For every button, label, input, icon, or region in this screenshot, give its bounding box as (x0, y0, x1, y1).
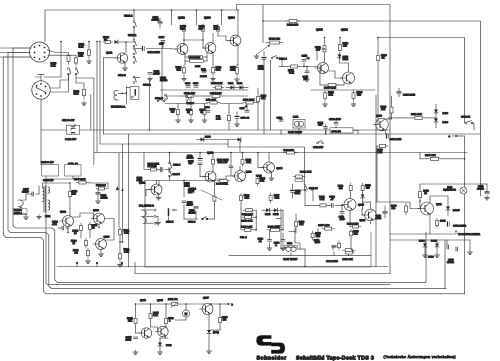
svg-text:10/1b: 10/1b (184, 184, 190, 187)
svg-text:810: 810 (357, 94, 362, 97)
svg-text:1R: 1R (104, 39, 107, 42)
svg-text:22/1b: 22/1b (258, 68, 265, 71)
svg-text:b: b (232, 304, 234, 307)
switch S101-1 second section (133, 48, 135, 50)
resistor R326 10K (391, 104, 393, 107)
wire C123 net (335, 118, 337, 122)
resistor R120 15K (257, 94, 259, 97)
wire osc net top (38, 186, 40, 194)
resistor R16 row tail (206, 103, 208, 104)
resistor R219 4.7K (240, 193, 242, 196)
ground erase head (25, 215, 27, 217)
wire to Q105 base (300, 66, 317, 68)
svg-text:R3b7 80K: R3b7 80K (425, 154, 436, 157)
wire mid bus 1 (80, 129, 390, 131)
trimmer box C219 (42, 165, 59, 177)
wire C208 top (230, 153, 232, 167)
svg-text:1K 10/1b: 1K 10/1b (148, 165, 158, 168)
resistor R128 810 (353, 90, 355, 93)
wire switch to C102 (135, 48, 143, 50)
svg-text:C220 10/1b: C220 10/1b (326, 260, 339, 263)
wire Q103 emitter (212, 53, 214, 66)
diode D106 on bus 3 (238, 138, 241, 142)
resistor R367 80K (427, 158, 430, 160)
resistor R106 90 (190, 107, 192, 110)
contact circle head-R (173, 209, 175, 211)
capacitor black bar head-R (168, 209, 170, 216)
svg-text:4.7K: 4.7K (216, 69, 221, 72)
capacitor C350 22/16 (386, 134, 388, 138)
wire Q103 collector (212, 34, 214, 44)
resistor R361 1.5K (119, 227, 121, 230)
wire x426 vertical (425, 232, 427, 282)
svg-text:RPB 100K: RPB 100K (243, 98, 255, 101)
resistor R101 5.1K (88, 42, 90, 48)
wire bus y=37 right side to S101-12 (378, 38, 465, 123)
wire C319 (398, 88, 400, 92)
capacitor C221 22/16 (291, 190, 295, 192)
diode D309 (158, 343, 162, 346)
switch S101-7 second (186, 95, 188, 97)
diode D307 (423, 244, 427, 247)
wire RP27 (319, 67, 321, 86)
svg-text:D309: D309 (166, 344, 172, 347)
wire head net (156, 216, 158, 220)
ground C116 (306, 77, 308, 79)
svg-text:300K: 300K (195, 65, 201, 68)
wire left vertical x145 (144, 181, 146, 268)
svg-text:(Technische Änderungen vorbeha: (Technische Änderungen vorbehalten) (384, 355, 457, 359)
svg-text:R371 1R: R371 1R (168, 298, 178, 301)
transformer L301 right winding lower (48, 200, 50, 210)
svg-text:4.7K: 4.7K (230, 69, 235, 72)
capacitor C104 100/16 (158, 21, 162, 23)
svg-text:100/16: 100/16 (200, 75, 207, 78)
svg-text:R351 18K: R351 18K (411, 113, 422, 116)
transistor Q104 (230, 35, 241, 46)
trimmer box C119/C120 (66, 125, 79, 134)
resistor R100 4.7K (68, 53, 70, 56)
wire Q106 collector net (340, 63, 349, 72)
transistor Q205 (344, 199, 356, 211)
svg-text:S101-5: S101-5 (118, 74, 126, 77)
transistor Q203 (235, 171, 246, 182)
transistor Q102 (177, 44, 188, 55)
resistor RP27 1.9M (325, 84, 328, 86)
node R101 (88, 41, 90, 43)
svg-text:(D3?): (D3?) (213, 331, 219, 334)
wire L201 net (281, 248, 286, 250)
svg-text:C207 1080P: C207 1080P (283, 258, 298, 261)
wire bottom bus 0 with terminals (57, 266, 388, 268)
wire head feed (135, 77, 140, 79)
wire diode D1305 (447, 196, 449, 207)
svg-text:D201: D201 (265, 213, 271, 216)
svg-text:Q105: Q105 (316, 29, 323, 32)
svg-text:5.1K: 5.1K (74, 93, 79, 96)
svg-text:20K: 20K (190, 190, 195, 193)
svg-text:Q307: Q307 (203, 297, 210, 300)
capacitor C206 100/16 (194, 206, 198, 208)
wire Q205/Q206 outputs (349, 211, 351, 227)
transistor Q310 (376, 118, 389, 131)
svg-text:Q205: Q205 (358, 203, 365, 206)
svg-text:C111: C111 (201, 68, 207, 71)
wire D309 (159, 338, 161, 343)
transistor Q306 (141, 328, 151, 338)
svg-text:Q302: Q302 (60, 211, 67, 214)
wire R353 top (419, 184, 421, 188)
capacitor C362 .022 (61, 226, 63, 230)
resistor R220 15K (295, 219, 297, 222)
ground under Q304 (100, 252, 102, 254)
resistor R201 5.1K (83, 86, 85, 89)
svg-text:S101-12: S101-12 (461, 116, 471, 119)
wire left drop (135, 304, 137, 316)
wire nested bus chain C (3, 57, 464, 294)
wire Q201 collector net (158, 181, 160, 187)
transistor Q106 (343, 72, 355, 84)
node junction (125, 41, 127, 43)
svg-text:RP08 47K: RP08 47K (184, 92, 195, 95)
resistor R353 12 (419, 188, 421, 191)
wire collector stubs from rail (171, 10, 173, 25)
wire Q202 bias (199, 153, 201, 159)
ground R125 (324, 102, 326, 104)
wire mid bus 2 (104, 133, 481, 135)
svg-text:C119 3-40P: C119 3-40P (62, 119, 75, 122)
svg-text:15K: 15K (261, 97, 266, 100)
potentiometer R236 18K (343, 249, 346, 251)
wire R231 diode (362, 193, 364, 195)
resistor RP02 1R (103, 41, 105, 43)
svg-text:C105: C105 (159, 36, 165, 39)
resistor R223 6.7K (318, 204, 320, 206)
wire C220 top (332, 246, 334, 250)
svg-text:100/b: 100/b (343, 58, 349, 61)
resistor R200 4.7K (75, 55, 77, 58)
wire block left vertical (161, 44, 163, 101)
resistor R362 8.2 (96, 188, 98, 190)
wire rows to bus (177, 104, 179, 108)
diode D103 (240, 86, 243, 90)
capacitor C265 47 (331, 203, 333, 207)
wire long vertical x61 (60, 42, 62, 78)
wire R202 row (144, 153, 149, 170)
switch S101-4 (271, 57, 273, 59)
resistor R227 1.6M (322, 228, 325, 230)
transistor Q202 (205, 171, 216, 182)
resistor R222 350 (284, 152, 287, 154)
trimmer box C319 (65, 165, 82, 177)
transistor Q304 (96, 239, 107, 250)
pot wiper arrow (257, 45, 270, 54)
wire C115 stub (303, 63, 305, 67)
capacitor C105 4.7P (161, 40, 165, 42)
wire R223 row (305, 204, 318, 206)
svg-text:Q201: Q201 (139, 182, 146, 185)
wire box link (126, 87, 130, 89)
resistor R223 4.7K (242, 157, 244, 159)
svg-text:b.8K: b.8K (216, 117, 221, 120)
trim cap C219 (45, 168, 49, 170)
wire Q102 collector up (183, 34, 185, 41)
switch S101-8 (169, 162, 171, 164)
svg-text:22K: 22K (128, 319, 133, 322)
svg-text:L101: L101 (293, 116, 299, 119)
svg-text:.027: .027 (318, 124, 323, 127)
wire diode rail (390, 239, 470, 241)
wire Q305 emitter (165, 337, 167, 339)
wire motor lead (185, 304, 187, 310)
resistor RP08 47K (183, 95, 186, 97)
resistor RPB 100K (243, 102, 246, 104)
svg-text:27P: 27P (304, 78, 309, 81)
svg-text:S101-7: S101-7 (173, 173, 181, 176)
wire C10B down to Q103 base (202, 34, 204, 41)
svg-text:Q106: Q106 (341, 29, 348, 32)
svg-text:4.7P: 4.7P (159, 43, 164, 46)
wire C116 (306, 67, 308, 72)
switch S101-7b (169, 171, 171, 173)
wire Q206 collector up (370, 202, 372, 209)
wire diode row (262, 209, 266, 211)
connector DIN socket 1 outline (30, 42, 50, 62)
wire DIN1 to resistor network (47, 50, 68, 53)
wire C223 net (317, 229, 319, 236)
svg-text:D202: D202 (273, 213, 279, 216)
diode D308 (435, 244, 439, 247)
wire R13 to Q104 (217, 34, 219, 37)
resistor R224 12K (312, 231, 314, 233)
connector box head-L (130, 87, 139, 100)
DIN socket 2 chassis arrow (35, 77, 41, 81)
wire junction up to Q101 collector (125, 42, 127, 52)
capacitor C203 1000P (182, 200, 186, 202)
potentiometer RP20 100K (217, 180, 220, 182)
svg-text:Q101: Q101 (106, 52, 113, 55)
svg-text:100/1b: 100/1b (160, 79, 168, 82)
capacitor C111 100/16 (202, 70, 206, 72)
wire R361 segment (119, 238, 121, 252)
diode D203 (434, 119, 438, 122)
svg-text:RP27 1.9M: RP27 1.9M (324, 87, 336, 90)
diode D310 (207, 330, 211, 333)
capacitor C358 22/16 (383, 211, 387, 213)
wire DIN1 pin leads to left edge (0, 47, 31, 49)
wire R238 to R220 (289, 231, 295, 233)
svg-text:R 221 50K: R 221 50K (300, 171, 312, 174)
capacitor C10B 4.7P (202, 24, 204, 26)
resistor R362b 1.5K (119, 251, 121, 254)
wire supply bus y=21 with corner down right side (263, 21, 481, 196)
diode D102 (231, 86, 234, 90)
transformer L301 left winding (43, 188, 45, 202)
svg-text:150: 150 (343, 45, 348, 48)
svg-text:22/1b: 22/1b (126, 338, 132, 341)
wire nested bus chain A (13, 48, 426, 282)
terminal stubs on bus0 (76, 263, 78, 267)
wire Q105 to Q106 (329, 71, 343, 78)
svg-text:Schneider: Schneider (257, 355, 288, 361)
ground Q201 emitter (158, 196, 160, 198)
svg-text:S101-3: S101-3 (155, 97, 163, 100)
svg-text:~5: ~5 (307, 57, 310, 60)
svg-text:C3B0: C3B0 (428, 256, 434, 259)
wire rail y147 (228, 147, 305, 190)
wire D101 to switch (118, 41, 134, 43)
svg-text:1500P: 1500P (22, 190, 29, 193)
wire Q310 emitter (385, 130, 387, 134)
svg-text:4.7K: 4.7K (244, 197, 249, 200)
svg-text:1000P: 1000P (187, 203, 194, 206)
resistor R126 150 (339, 42, 341, 45)
wire motor limiter rail (429, 214, 431, 235)
svg-text:Schaltbild Tape-Deck TDS 3: Schaltbild Tape-Deck TDS 3 (296, 355, 374, 361)
svg-text:R25B 100K: R25B 100K (268, 225, 280, 228)
ground R117 (236, 77, 238, 79)
switch S101-9 (202, 218, 204, 220)
wire S101-4 column down (270, 60, 272, 130)
switch S101-10 (304, 185, 306, 187)
transformer L301 right winding upper (48, 187, 50, 193)
resistor R203 8.2K (212, 157, 214, 159)
svg-text:R357 2.2K: R357 2.2K (74, 178, 86, 181)
coil L101 (293, 120, 305, 129)
DIN socket 1 pins (34, 46, 36, 48)
logo Schneider mark lower C (271, 343, 285, 354)
resistor R357 2.2K (76, 182, 79, 184)
resistor R105 3.3 (177, 107, 179, 110)
coil L201 (286, 246, 291, 251)
wire column x149 to bus1 (148, 80, 150, 130)
wire rail y152.5 (94, 152, 467, 154)
svg-text:S101-b: S101-b (143, 84, 151, 87)
wire erase head (23, 194, 26, 200)
resistor R160 1K (377, 53, 379, 56)
svg-text:C123 470P: C123 470P (329, 118, 341, 121)
capacitor C103 1000P (148, 72, 152, 74)
svg-text:Q304: Q304 (104, 236, 111, 239)
svg-text:4.7K: 4.7K (78, 54, 83, 57)
svg-text:Q103: Q103 (204, 17, 211, 20)
wire Q201 leads (156, 181, 158, 185)
svg-text:4.7K: 4.7K (246, 161, 251, 164)
svg-text:Q305: Q305 (157, 299, 164, 302)
svg-text:18K: 18K (72, 192, 77, 195)
wire x376 block edge (375, 95, 377, 267)
svg-text:Q104: Q104 (228, 17, 235, 20)
potentiometer R221 50K (293, 176, 296, 178)
switch S101-3 (157, 100, 159, 102)
svg-text:C 120 15P: C 120 15P (65, 138, 77, 141)
capacitor C223 1500 (316, 235, 320, 237)
svg-text:Q203: Q203 (246, 171, 253, 174)
wire rail y255.7 (229, 255, 371, 257)
transformer L301 core (43, 186, 45, 212)
resistor R212 2.2K (242, 216, 245, 218)
wire to R123 (279, 66, 288, 68)
svg-text:D103: D103 (443, 112, 449, 115)
wire row y96 (165, 95, 183, 97)
wire C121 column down (263, 61, 265, 134)
svg-text:47P: 47P (189, 162, 194, 165)
wire C203 net (183, 181, 185, 198)
svg-text:1.2K: 1.2K (153, 314, 158, 317)
svg-text:C350 22/1b: C350 22/1b (390, 138, 403, 141)
resistor R218 3.3K (242, 229, 245, 231)
svg-text:Q311: Q311 (436, 203, 442, 206)
ground C214 (282, 246, 284, 248)
svg-text:RP2b 100K: RP2b 100K (216, 183, 228, 186)
resistor R354 1.5M (377, 145, 379, 147)
svg-text:Q20b: Q20b (360, 219, 367, 222)
ground C388 (135, 350, 137, 352)
resistor R351 18K (412, 117, 415, 119)
wire emitter row y90 (311, 89, 375, 91)
capacitor C352 220/16 (447, 222, 449, 226)
wire EQ nets (295, 214, 297, 219)
wire C367 (26, 193, 32, 195)
svg-text:15K: 15K (299, 223, 304, 226)
wire lamp (463, 183, 481, 185)
capacitor C216 277P (340, 211, 344, 213)
svg-text:C110 .01: C110 .01 (241, 117, 250, 120)
svg-text:HEAD-L: HEAD-L (14, 212, 23, 215)
tape head R/P HEAD-R (143, 210, 146, 216)
resistor R225 12K (350, 229, 352, 231)
trim cap C219b (52, 168, 56, 170)
switch S101-5 lower (133, 56, 135, 58)
transistor Q204 (264, 162, 275, 173)
switch S101-7 contacts (165, 94, 167, 96)
wire C104 stub (159, 18, 161, 22)
svg-text:R322 350: R322 350 (284, 149, 295, 152)
svg-text:R P, HEAD-R: R P, HEAD-R (139, 205, 154, 208)
svg-text:1.5K: 1.5K (124, 231, 129, 234)
capacitor C121 22/16 (262, 57, 266, 59)
svg-text:12K: 12K (354, 232, 359, 235)
svg-text:ERASE: ERASE (14, 209, 22, 212)
wire x445 vertical (444, 240, 446, 288)
wire feed to verticals (76, 77, 94, 79)
capacitor C116 .1 (245, 110, 249, 112)
connector DIN socket 2 outline (32, 81, 50, 99)
wire mid bus 3 diode segment (197, 139, 241, 141)
svg-text:Q204: Q204 (277, 167, 284, 170)
wire L201 to rail (290, 253, 292, 256)
wire Q305 net (150, 321, 152, 327)
svg-text:Q30b: Q30b (140, 299, 147, 302)
resistor R235 18K (338, 241, 340, 243)
diode D112 (338, 55, 342, 58)
resistor R358 10 (89, 222, 91, 225)
svg-text:S101-1: S101-1 (128, 34, 137, 37)
svg-text:C219 3-40P: C219 3-40P (41, 161, 54, 164)
wire vertical from bus to pot (262, 5, 264, 43)
ground R106 (190, 118, 192, 120)
wire motor rail (137, 303, 169, 305)
svg-text:A: A (117, 188, 119, 191)
wire Q204 net (268, 153, 270, 163)
svg-text:RP04 100K: RP04 100K (189, 56, 200, 59)
capacitor C205 (160, 168, 162, 172)
wire R373 (219, 304, 221, 315)
wire osc couplings (69, 183, 71, 189)
svg-text:R322 160: R322 160 (287, 24, 299, 27)
wire Q303 out to erase bus (98, 224, 100, 228)
ground under R201 (83, 101, 85, 103)
